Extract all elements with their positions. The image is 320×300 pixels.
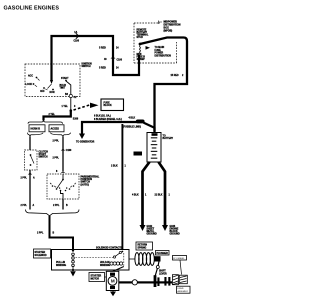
clutch start switch dashed box bbox=[25, 150, 38, 170]
svg-text:2 BLK: 2 BLK bbox=[111, 165, 118, 167]
svg-text:DRIVE: DRIVE bbox=[178, 288, 185, 290]
label IGNITION SWITCH bbox=[82, 63, 93, 68]
brace over relay boxes bbox=[28, 120, 63, 124]
motor ground bbox=[110, 292, 116, 297]
pinion collars bbox=[164, 277, 170, 286]
ground wire G103 bbox=[159, 162, 166, 225]
hold-in winding coil bbox=[110, 262, 123, 265]
return spring label bbox=[136, 242, 153, 250]
svg-text:S206: S206 bbox=[73, 119, 79, 121]
svg-text:STARTER: STARTER bbox=[91, 274, 102, 277]
svg-text:(FUSIBLE LINK): (FUSIBLE LINK) bbox=[123, 126, 141, 129]
label DIMR bbox=[134, 152, 143, 156]
ground arrow G102 bbox=[140, 225, 146, 231]
wire below clutch switch bbox=[29, 170, 31, 210]
label 3 RED 14 (lower) bbox=[99, 66, 119, 69]
label TO BATTERY bbox=[163, 136, 174, 141]
svg-text:HORN R: HORN R bbox=[31, 128, 41, 131]
ignition switch contacts bbox=[26, 75, 70, 95]
label 4 BLK 1 bbox=[132, 193, 147, 196]
ignition switch dashed box bbox=[25, 64, 80, 97]
svg-text:ACC: ACC bbox=[28, 75, 33, 78]
fuse block box bbox=[101, 99, 124, 111]
label STARTER SOLENOID bbox=[34, 249, 51, 258]
wire 2 BLK down to solenoid contacts bbox=[121, 124, 123, 250]
svg-text:GASOLINE ENGINES: GASOLINE ENGINES bbox=[4, 6, 60, 12]
label 1 YEL 3 bbox=[62, 106, 77, 108]
splice S206 bbox=[70, 109, 73, 112]
thick wire S206 down-left to relay boxes bbox=[44, 111, 71, 121]
label 3 RED 14 (upper) bbox=[99, 46, 119, 49]
svg-text:TO GENERATOR: TO GENERATOR bbox=[76, 140, 95, 143]
svg-text:15 RED: 15 RED bbox=[171, 75, 179, 77]
svg-text:LEVER: LEVER bbox=[159, 274, 167, 276]
svg-text:BLOCK: BLOCK bbox=[104, 105, 113, 107]
splice blob on fusible link bbox=[136, 120, 145, 124]
wire: thick battery feed from ignition switch up and over to C100 vertical bbox=[52, 36, 140, 80]
svg-text:(MPDB): (MPDB) bbox=[164, 29, 173, 32]
starter solenoid box bbox=[52, 250, 130, 271]
svg-text:21 BLK: 21 BLK bbox=[155, 194, 163, 196]
label CLUTCH START SWITCH bbox=[39, 152, 49, 159]
label MIDI FUSE B 40 AMP bbox=[137, 54, 146, 61]
label 2 BLK 1 bbox=[111, 165, 127, 167]
pull-in winding coil bbox=[72, 253, 75, 270]
labels at merge bbox=[21, 204, 69, 207]
svg-text:PLUNGER: PLUNGER bbox=[157, 253, 169, 255]
label G103 bbox=[170, 226, 181, 236]
winding ground bbox=[70, 269, 76, 277]
labels 6 BLK fusible link bbox=[94, 114, 141, 128]
svg-text:ACCES: ACCES bbox=[51, 128, 60, 131]
clutch switch contacts bbox=[30, 154, 34, 166]
svg-text:GROUND: GROUND bbox=[170, 234, 181, 236]
svg-text:STARTER: STARTER bbox=[35, 251, 46, 254]
flywheel gear bbox=[179, 275, 187, 284]
power distribution dashed box bbox=[134, 23, 177, 63]
label shift lever bbox=[159, 271, 167, 276]
wire merged to starter solenoid bbox=[50, 216, 74, 250]
svg-text:3 RED: 3 RED bbox=[99, 67, 106, 69]
label G102 bbox=[147, 226, 158, 236]
svg-text:2 YEL: 2 YEL bbox=[49, 114, 56, 116]
arrow TO MAIN POWER DISTRIBUTION bbox=[146, 46, 172, 57]
relay box ACCSRY bbox=[49, 125, 64, 132]
ignition switch rotor tip bbox=[50, 80, 53, 84]
plunger block bbox=[155, 256, 161, 261]
svg-text:C100: C100 bbox=[117, 60, 123, 62]
svg-text:C100: C100 bbox=[74, 40, 80, 42]
label 15 RED 2 bbox=[171, 75, 185, 77]
drive assembly label bbox=[177, 286, 191, 293]
svg-text:WINDING: WINDING bbox=[100, 265, 110, 267]
label 21 BLK 1 bbox=[155, 194, 171, 196]
wire from ACC box to P/N switch bbox=[62, 137, 64, 172]
svg-text:WINDING: WINDING bbox=[56, 265, 66, 267]
brace under HORN box bbox=[28, 133, 44, 137]
svg-text:DISTRIBUTION: DISTRIBUTION bbox=[155, 55, 172, 57]
label PULL-IN WINDING bbox=[56, 262, 66, 267]
svg-text:FUSE: FUSE bbox=[155, 50, 162, 52]
junction block (tall box) bbox=[147, 133, 161, 163]
ground wire G102 bbox=[143, 162, 150, 225]
svg-text:PULL-IN: PULL-IN bbox=[56, 262, 65, 264]
svg-text:GROUND: GROUND bbox=[147, 234, 158, 236]
return spring bbox=[129, 253, 154, 266]
svg-text:40 AMP: 40 AMP bbox=[137, 58, 146, 61]
svg-text:C100: C100 bbox=[66, 150, 72, 152]
label box MIDPOWER DISTRIBUTION BOX bbox=[159, 20, 181, 32]
svg-text:1: 1 bbox=[75, 184, 76, 186]
svg-text:6 BLK (2/L GA.): 6 BLK (2/L GA.) bbox=[94, 114, 111, 117]
svg-text:TO MAIN: TO MAIN bbox=[155, 46, 165, 49]
svg-text:OFF: OFF bbox=[40, 91, 45, 93]
ground arrow G103 bbox=[162, 225, 168, 231]
svg-text:STUD: STUD bbox=[137, 37, 144, 39]
solenoid entry dot bbox=[72, 249, 74, 251]
svg-text:4 BLK: 4 BLK bbox=[132, 193, 139, 196]
relay box HORN bbox=[29, 125, 45, 132]
drive pinion gear bbox=[172, 275, 178, 285]
svg-text:2 PPL: 2 PPL bbox=[53, 205, 60, 207]
connector C100 lower bbox=[53, 149, 73, 160]
svg-text:2 PPL: 2 PPL bbox=[53, 157, 60, 159]
svg-text:2 PPL: 2 PPL bbox=[21, 205, 28, 207]
MIDI fuse symbol bbox=[139, 46, 142, 55]
svg-text:SHIFT: SHIFT bbox=[159, 271, 166, 273]
svg-text:HOLD-IN: HOLD-IN bbox=[100, 262, 110, 264]
connector below clutch switch bbox=[21, 173, 36, 180]
svg-text:2 PPL: 2 PPL bbox=[37, 232, 44, 234]
terminal stud dot bbox=[139, 43, 142, 46]
arrow TO GENERATOR bbox=[76, 134, 95, 144]
wire below P/N switch bbox=[62, 199, 64, 210]
label HOLD-IN WINDING bbox=[100, 262, 110, 267]
svg-text:1A: 1A bbox=[74, 31, 77, 34]
wire to clutch start switch bbox=[29, 137, 31, 151]
svg-text:BATTERY: BATTERY bbox=[163, 137, 174, 140]
dashed arrow to fuse block bbox=[74, 103, 99, 110]
svg-text:FLY WHEEL: FLY WHEEL bbox=[173, 258, 185, 260]
label REMOTE BATTERY TERMINAL STUD bbox=[137, 30, 149, 40]
svg-text:2: 2 bbox=[71, 187, 72, 189]
drive collar bbox=[154, 275, 160, 287]
P/N switch contacts bbox=[50, 174, 76, 199]
svg-text:1 YEL: 1 YEL bbox=[62, 106, 69, 108]
starter motor label bbox=[89, 273, 106, 282]
connector C100 on vertical wire bbox=[104, 57, 123, 62]
park/neutral position switch dashed box bbox=[47, 174, 79, 199]
dashed plunger link bbox=[123, 253, 125, 267]
dashed link in solenoid bbox=[76, 257, 114, 259]
svg-text:MOTOR: MOTOR bbox=[91, 278, 100, 280]
svg-text:SPRING: SPRING bbox=[138, 248, 147, 250]
svg-text:LOCK: LOCK bbox=[26, 84, 33, 86]
fly wheel label bbox=[173, 256, 187, 275]
fuse block feed: thick fusible link wire to generator and battery bbox=[82, 122, 137, 134]
svg-text:RETURN: RETURN bbox=[138, 245, 148, 247]
brace under ACC box bbox=[51, 133, 71, 137]
wire: thick feed from stud to right and down to junction block bbox=[140, 38, 187, 134]
svg-text:SWITCH: SWITCH bbox=[82, 66, 91, 68]
label 2 PPL B bbox=[37, 232, 55, 234]
starter motor bbox=[106, 271, 119, 290]
label PARK NEUTRAL POSITION SWITCH bbox=[81, 175, 100, 186]
svg-text:M: M bbox=[111, 279, 115, 284]
svg-text:TEST: TEST bbox=[60, 88, 66, 90]
shift lever bbox=[155, 259, 160, 277]
connector A on top horizontal wire bbox=[74, 31, 80, 43]
svg-text:2 PPL: 2 PPL bbox=[21, 178, 28, 180]
plunger label bbox=[156, 251, 170, 256]
svg-text:SWITCH: SWITCH bbox=[39, 157, 48, 159]
connector at P/N top bbox=[61, 171, 65, 173]
svg-text:ASSEMBLY: ASSEMBLY bbox=[178, 290, 189, 293]
svg-text:6 BLK/RED (DIESEL 6.2L): 6 BLK/RED (DIESEL 6.2L) bbox=[94, 119, 122, 121]
wire from START to bottom connector bbox=[66, 81, 71, 94]
svg-text:START: START bbox=[61, 77, 69, 80]
shaft ring bbox=[132, 280, 137, 285]
wire contacts to motor bbox=[113, 267, 124, 272]
svg-text:POWER: POWER bbox=[155, 53, 164, 55]
svg-text:(AUTO): (AUTO) bbox=[81, 183, 90, 186]
svg-text:2 PPL: 2 PPL bbox=[53, 140, 60, 142]
svg-text:SOLENOID: SOLENOID bbox=[35, 255, 47, 257]
svg-text:4 BLK: 4 BLK bbox=[129, 116, 136, 119]
svg-text:3 RED: 3 RED bbox=[99, 47, 106, 49]
wire down to splice S206 bbox=[70, 98, 72, 111]
connector circle B3 bbox=[65, 94, 77, 99]
svg-text:SOLENOID CONTACTS: SOLENOID CONTACTS bbox=[96, 247, 123, 250]
armature shaft bbox=[119, 281, 177, 283]
merge brace bbox=[26, 210, 80, 216]
solenoid contacts bbox=[113, 251, 123, 259]
svg-text:RUN: RUN bbox=[50, 92, 55, 94]
